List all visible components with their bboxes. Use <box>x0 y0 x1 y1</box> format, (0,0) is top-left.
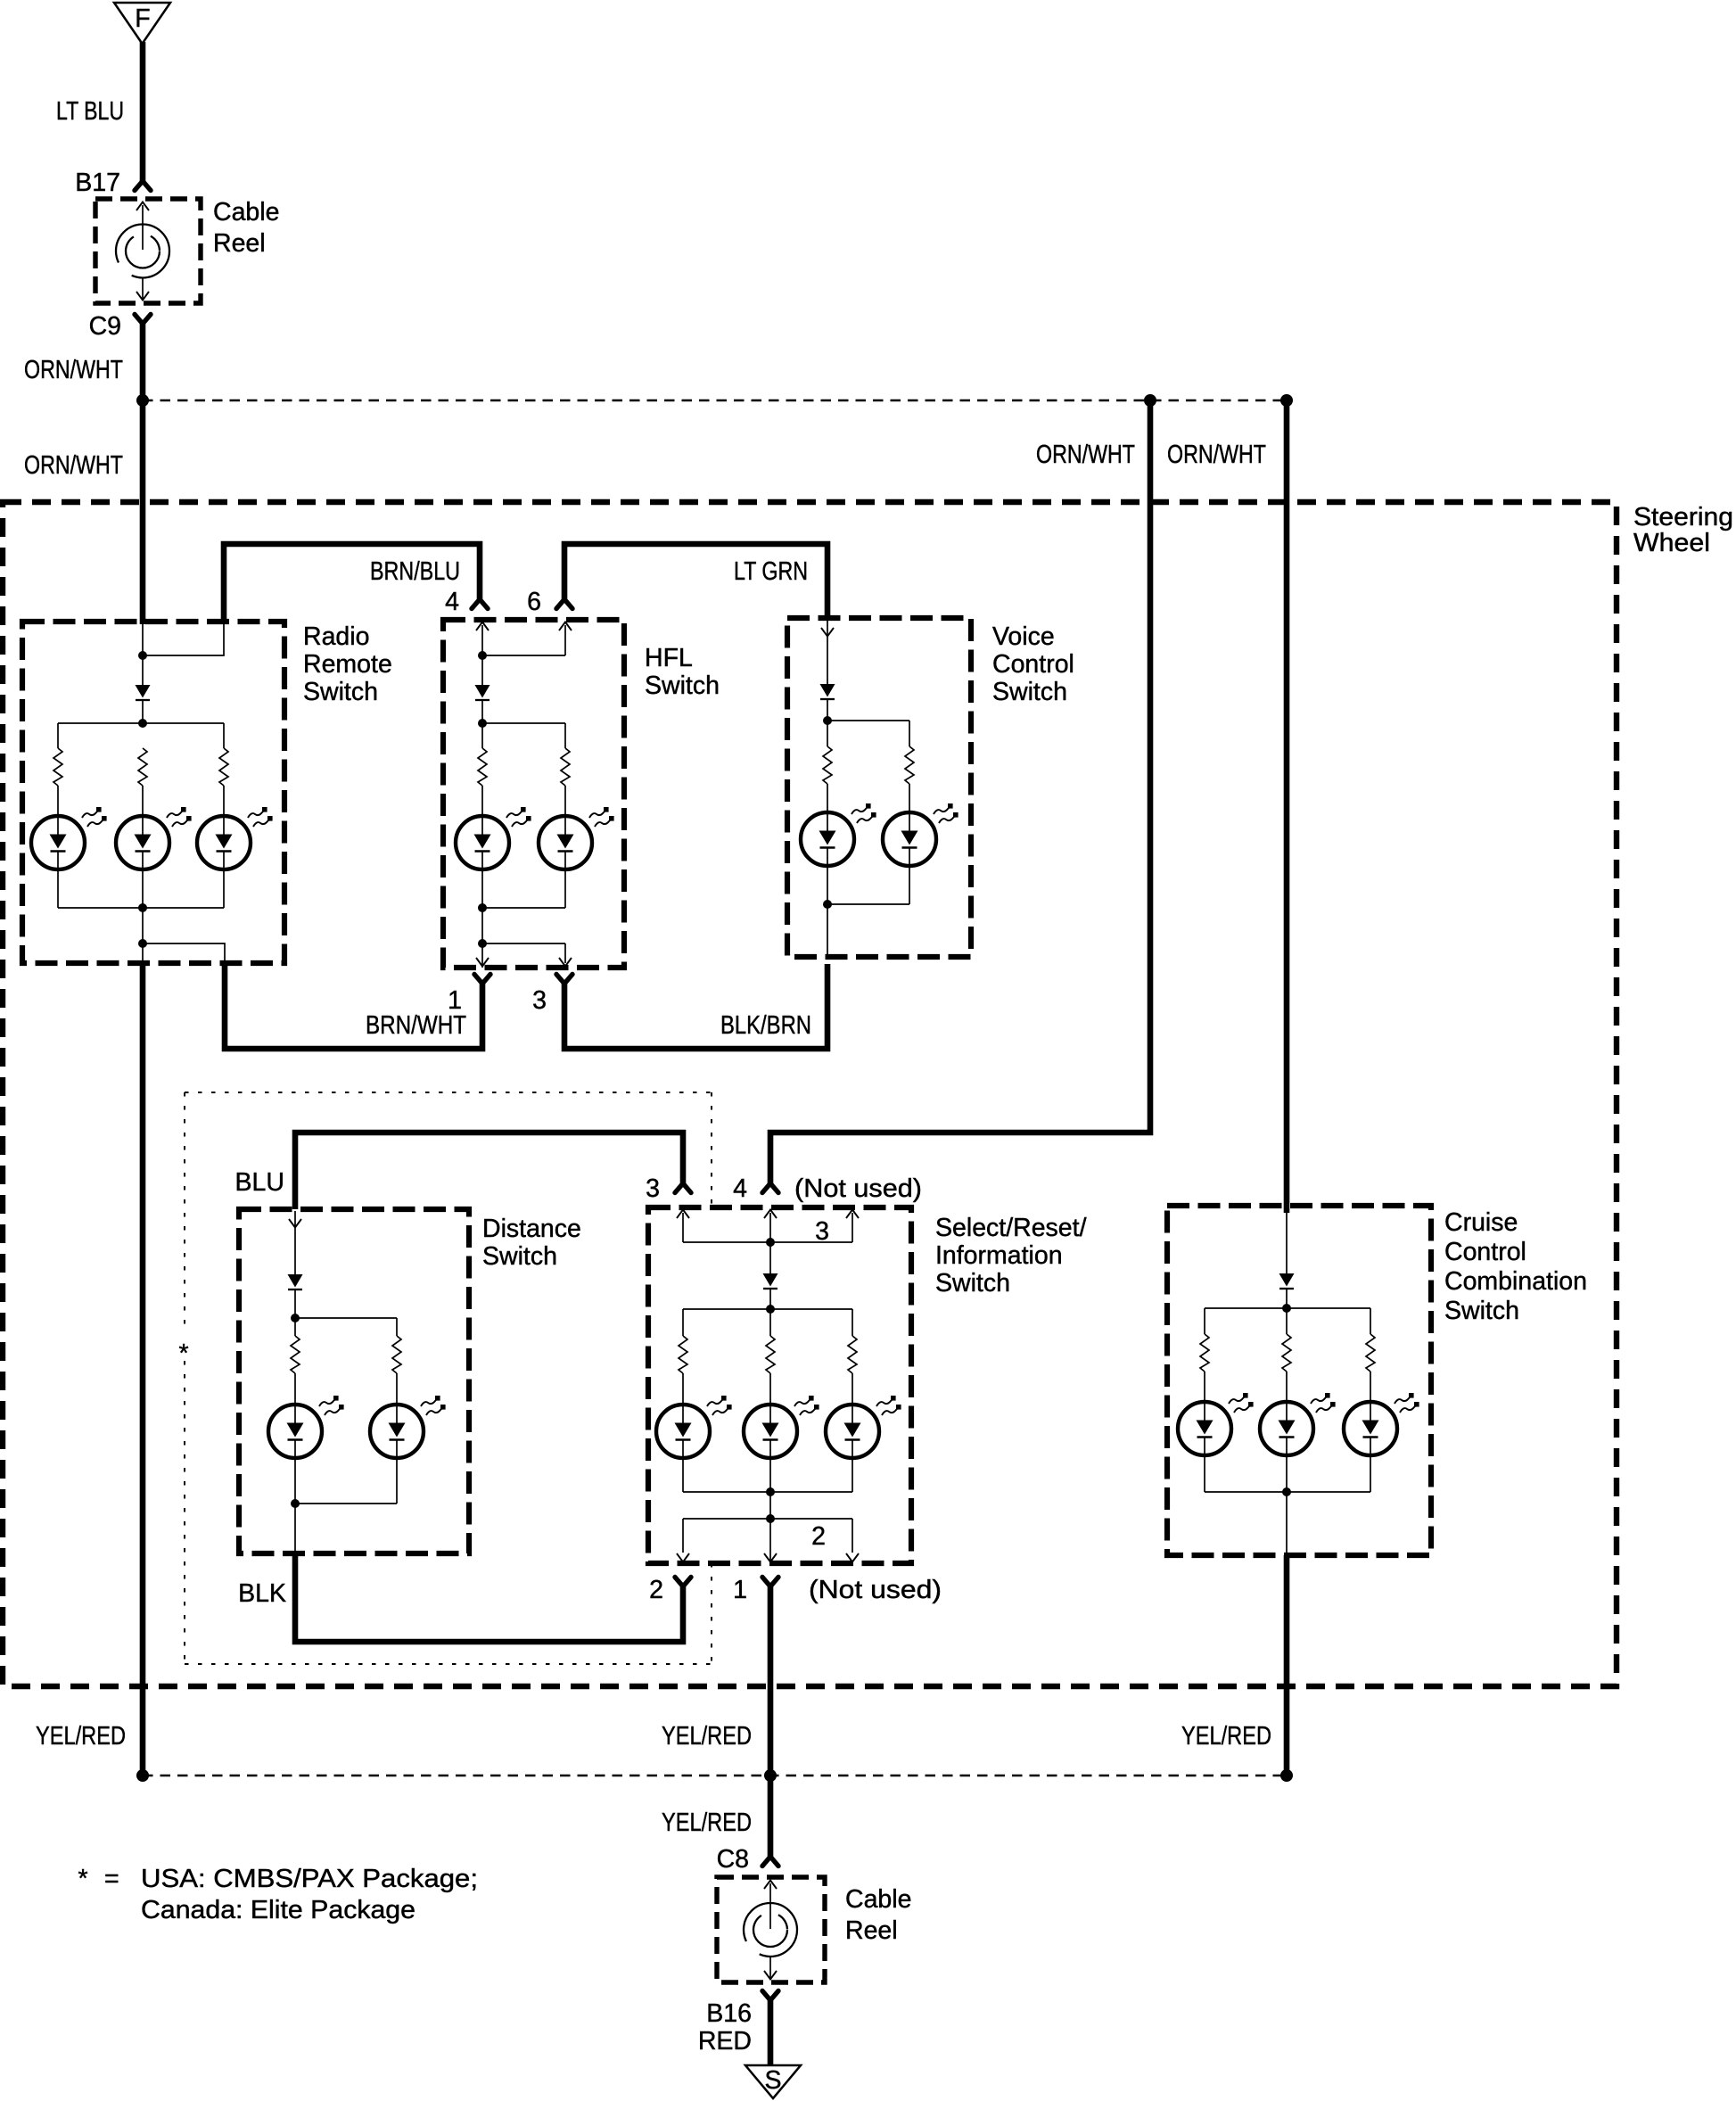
wire (select center line) <box>769 1213 771 1273</box>
Select/Reset/Information Switch box <box>648 1207 911 1563</box>
resistor (radio 2) <box>138 748 147 786</box>
wire (HFL branch 2) <box>564 723 566 748</box>
node B (top bus mid) <box>1144 394 1156 407</box>
wire <box>481 700 483 723</box>
resistor (cruise 1) <box>1200 1334 1209 1372</box>
pin arrow into cable reel <box>136 202 149 251</box>
wire <box>682 1373 684 1405</box>
svg-text:RED: RED <box>698 2027 752 2056</box>
wire YEL/RED (cruise to bottom bus) <box>1284 1555 1290 1779</box>
steering wheel boundary <box>3 502 1617 1686</box>
wire <box>294 1373 296 1405</box>
svg-text:(Not used): (Not used) <box>794 1174 922 1203</box>
wire <box>1204 1372 1205 1402</box>
node <box>138 903 147 912</box>
wire (distance branch 2) <box>396 1318 398 1336</box>
connector S (splice feed) <box>745 2065 801 2098</box>
label Distance Switch <box>482 1215 581 1271</box>
node <box>766 1514 775 1523</box>
svg-text:Combination: Combination <box>1444 1267 1587 1296</box>
wire <box>294 1458 296 1553</box>
wire <box>294 1289 296 1318</box>
svg-text:Switch: Switch <box>992 678 1067 706</box>
node (select rail) <box>766 1305 775 1314</box>
svg-text:USA: CMBS/PAX Package;: USA: CMBS/PAX Package; <box>141 1865 478 1893</box>
wire <box>564 869 566 908</box>
wire (cruise top rail) <box>1205 1307 1370 1309</box>
wire <box>1286 1289 1288 1308</box>
pin arrow (HFL 6) <box>559 622 572 631</box>
connector pin 1 (Select) <box>762 1578 778 1587</box>
wire (radio link to BRN/BLU entry) <box>143 624 224 655</box>
svg-text:Reel: Reel <box>213 229 266 258</box>
svg-text:ORN/WHT: ORN/WHT <box>24 451 123 480</box>
connector B17 <box>135 181 151 191</box>
wire (cruise bottom rail) <box>1205 1491 1370 1493</box>
wire (radio internal feed) <box>142 624 144 685</box>
Radio Remote Switch box <box>22 622 284 963</box>
wire (voice branch 2) <box>909 721 910 746</box>
wire BRN/WHT <box>225 963 482 1049</box>
wire (radio branch 3) <box>223 723 225 748</box>
svg-text:B17: B17 <box>75 169 120 197</box>
wire RED <box>768 2000 774 2067</box>
wire (cruise feed) <box>1286 1211 1288 1273</box>
wire <box>396 1373 398 1405</box>
LED (radio 1) <box>31 807 107 869</box>
svg-text:Control: Control <box>1444 1238 1526 1266</box>
wire <box>564 625 566 655</box>
connector pin 3 (HFL) <box>556 975 572 985</box>
wire (HFL top rail) <box>482 722 565 724</box>
pin arrow (HFL 4) <box>476 622 489 631</box>
wire (radio branch 1) <box>57 723 59 748</box>
wire (cruise branch 1) <box>1204 1308 1205 1334</box>
svg-text:4: 4 <box>445 588 459 616</box>
wire <box>769 1289 771 1309</box>
wire (select branch 3) <box>852 1309 853 1336</box>
label Cable Reel (top) <box>213 198 279 258</box>
svg-text:F: F <box>135 4 150 33</box>
wire (select top link rail) <box>683 1241 852 1243</box>
resistor (select 1) <box>679 1336 687 1373</box>
LED (distance 1) <box>268 1396 344 1458</box>
svg-text:YEL/RED: YEL/RED <box>1181 1722 1271 1751</box>
svg-text:Switch: Switch <box>935 1269 1010 1298</box>
resistor (radio 3) <box>219 748 228 786</box>
cable reel coil (bottom) <box>744 1903 797 1957</box>
node (radio link) <box>138 651 147 660</box>
svg-text:Select/Reset/: Select/Reset/ <box>935 1214 1087 1242</box>
node (HFL link) <box>478 651 487 660</box>
svg-text:2: 2 <box>811 1522 826 1551</box>
wire <box>769 1309 771 1336</box>
cable reel coil <box>116 225 169 278</box>
svg-text:BLK: BLK <box>238 1579 286 1608</box>
wire <box>223 869 225 908</box>
svg-text:Canada: Elite Package: Canada: Elite Package <box>141 1896 415 1924</box>
svg-text:Voice: Voice <box>992 622 1055 651</box>
resistor (HFL 1) <box>478 748 487 786</box>
node (distance rail) <box>291 1314 300 1322</box>
Cruise Control Combination Switch box <box>1167 1206 1431 1555</box>
svg-text:LT BLU: LT BLU <box>56 97 124 126</box>
wire YEL/RED (node E to C8) <box>768 1776 774 1857</box>
LED (cruise 2) <box>1260 1393 1336 1455</box>
wire <box>769 1458 771 1563</box>
pin arrow (HFL 3 exit) <box>559 958 572 967</box>
LED (select 2) <box>744 1396 819 1458</box>
wire (select bottom rail) <box>683 1491 852 1493</box>
wire <box>852 1458 853 1492</box>
wire YEL/RED (select pin 1 down) <box>768 1586 774 1779</box>
label HFL Switch <box>645 644 720 700</box>
diode (HFL) <box>475 685 490 700</box>
svg-text:LT GRN: LT GRN <box>734 557 808 586</box>
pin arrow (select 3) <box>677 1210 689 1243</box>
wire <box>909 866 910 904</box>
wire <box>481 723 483 748</box>
resistor (voice 2) <box>905 746 914 784</box>
svg-text:Radio: Radio <box>303 622 369 651</box>
node <box>766 1487 775 1496</box>
svg-text:(Not used): (Not used) <box>809 1576 942 1604</box>
pin arrow (select internal 2 exit) <box>846 1553 859 1562</box>
svg-text:BRN/WHT: BRN/WHT <box>366 1011 466 1040</box>
node F (bottom bus right) <box>1280 1769 1293 1782</box>
LED (distance 2) <box>370 1396 446 1458</box>
diode (voice) <box>820 684 835 699</box>
svg-text:S: S <box>764 2066 781 2095</box>
node (cruise rail) <box>1282 1304 1291 1313</box>
svg-text:2: 2 <box>649 1576 663 1604</box>
resistor (select 3) <box>848 1336 857 1373</box>
svg-text:*: * <box>178 1339 188 1368</box>
connector B16 <box>762 1991 778 2001</box>
resistor (voice 1) <box>823 746 832 784</box>
LED (voice 1) <box>801 803 876 866</box>
svg-text:BLK/BRN: BLK/BRN <box>720 1011 811 1040</box>
cable reel exit arrow <box>136 278 149 301</box>
LED (HFL 2) <box>539 807 614 869</box>
wire (HFL link rail) <box>482 655 565 656</box>
wire <box>142 700 144 723</box>
wire <box>769 1373 771 1405</box>
svg-text:Cruise: Cruise <box>1444 1208 1518 1237</box>
node E (bottom bus center) <box>764 1769 777 1782</box>
resistor (cruise 3) <box>1366 1334 1375 1372</box>
Voice Control Switch box <box>787 618 971 957</box>
diode (radio) <box>136 685 151 700</box>
LED (cruise 3) <box>1344 1393 1419 1455</box>
svg-text:Switch: Switch <box>303 678 378 706</box>
wire <box>57 869 59 908</box>
node (radio rail) <box>138 719 147 728</box>
wire <box>909 784 910 812</box>
wire <box>294 1318 296 1336</box>
node <box>823 900 832 909</box>
wire (radio top rail) <box>58 722 224 724</box>
wire ORN/WHT (node C to Cruise box) <box>1284 400 1290 1213</box>
bus dashed line (bottom) <box>143 1775 1287 1777</box>
wire <box>1286 1455 1288 1555</box>
svg-text:HFL: HFL <box>645 644 693 672</box>
connector F (fuse feed) <box>114 3 170 44</box>
wire (voice bottom rail) <box>827 903 909 905</box>
wire <box>682 1458 684 1492</box>
resistor (cruise 2) <box>1282 1334 1291 1372</box>
label Cable Reel (bottom) <box>845 1885 911 1945</box>
wire <box>1286 1308 1288 1334</box>
HFL Switch box <box>443 620 624 968</box>
svg-text:YEL/RED: YEL/RED <box>36 1722 126 1751</box>
wire <box>827 866 828 957</box>
wire <box>564 943 566 963</box>
wire <box>852 1373 853 1405</box>
wire <box>481 869 483 968</box>
diode (distance) <box>288 1274 303 1289</box>
svg-text:ORN/WHT: ORN/WHT <box>1036 441 1135 469</box>
cable reel box (bottom) <box>717 1877 825 1982</box>
wire (select branch 1) <box>682 1309 684 1336</box>
wire <box>1286 1372 1288 1402</box>
wire (select bottom link rail) <box>683 1518 852 1520</box>
wire <box>852 1519 853 1553</box>
LED (voice 2) <box>883 803 959 866</box>
label Cruise Control Combination Switch <box>1444 1208 1587 1325</box>
svg-text:Information: Information <box>935 1241 1063 1270</box>
connector pin 3 (Select) <box>675 1183 691 1193</box>
svg-text:Distance: Distance <box>482 1215 581 1243</box>
resistor (distance 1) <box>291 1336 300 1373</box>
resistor (HFL 2) <box>561 748 570 786</box>
wire <box>223 786 225 815</box>
wire <box>827 721 828 746</box>
resistor (select 2) <box>766 1336 775 1373</box>
wire LT BLU <box>140 42 146 181</box>
wire (HFL bottom rail) <box>482 907 565 909</box>
feed arrow (distance) <box>289 1211 301 1274</box>
diode (cruise) <box>1279 1273 1295 1289</box>
svg-text:C9: C9 <box>89 312 121 341</box>
svg-text:Switch: Switch <box>645 671 720 700</box>
resistor (radio 1) <box>53 748 62 786</box>
svg-text:B16: B16 <box>706 1999 752 2028</box>
wire LT GRN <box>564 544 827 621</box>
label Steering Wheel <box>1633 503 1733 557</box>
option dotted boundary (CMBS/PAX) <box>185 1092 712 1664</box>
wire (radio bottom rail) <box>58 907 224 909</box>
wire (cruise branch 3) <box>1370 1308 1371 1334</box>
wire <box>481 786 483 815</box>
wire (radio link to BRN/WHT exit) <box>143 943 225 963</box>
node <box>1282 1487 1291 1496</box>
LED (radio 2) <box>116 807 192 869</box>
wire <box>57 786 59 815</box>
LED (cruise 1) <box>1178 1393 1254 1455</box>
wire <box>564 786 566 815</box>
svg-text:4: 4 <box>733 1174 747 1203</box>
wire BRN/BLU <box>224 544 480 624</box>
wire <box>142 786 144 815</box>
resistor (distance 2) <box>392 1336 401 1373</box>
wire (distance bottom rail) <box>295 1503 397 1504</box>
connector pin 4 (Select) <box>762 1183 778 1193</box>
node <box>291 1499 300 1508</box>
svg-text:ORN/WHT: ORN/WHT <box>24 356 123 384</box>
LED (radio 3) <box>197 807 273 869</box>
wire (distance top rail) <box>295 1317 397 1319</box>
pin arrow (select 2 exit) <box>677 1553 689 1562</box>
svg-text:Steering: Steering <box>1633 503 1733 531</box>
wire <box>142 869 144 963</box>
wire (HFL left line) <box>481 625 483 685</box>
wire <box>827 784 828 812</box>
svg-text:C8: C8 <box>717 1845 749 1874</box>
diode (select) <box>763 1273 778 1289</box>
svg-text:BRN/BLU: BRN/BLU <box>370 557 460 586</box>
node <box>766 1238 775 1247</box>
Distance Switch box <box>239 1209 469 1553</box>
wire <box>1370 1372 1371 1402</box>
footnote <box>78 1865 478 1924</box>
wire (select top rail) <box>683 1308 852 1310</box>
wire BLK/BRN <box>564 964 827 1049</box>
feed arrow (voice) <box>821 621 834 684</box>
node D (bottom bus left) <box>136 1769 149 1782</box>
node <box>138 939 147 948</box>
pin arrow (select 1 exit) <box>764 1553 777 1562</box>
cable reel exit arrow <box>764 1957 777 1980</box>
svg-text:Remote: Remote <box>303 650 392 679</box>
connector pin 4 (HFL) <box>472 599 488 609</box>
wire <box>1204 1455 1205 1492</box>
node C (top bus right) <box>1280 394 1293 407</box>
node (voice rail) <box>823 716 832 725</box>
bus dashed line (top) <box>143 400 1287 402</box>
svg-text:3: 3 <box>646 1174 660 1203</box>
svg-text:BLU: BLU <box>235 1168 284 1197</box>
svg-text:Reel: Reel <box>845 1916 898 1945</box>
connector C9 <box>135 315 151 325</box>
wire BLU <box>295 1133 683 1209</box>
wire YEL/RED (radio to bottom bus) <box>140 963 146 1779</box>
svg-text:*: * <box>78 1865 87 1893</box>
wire <box>827 699 828 721</box>
node <box>478 939 487 948</box>
wire <box>1370 1455 1371 1492</box>
connector pin 1 (HFL) <box>474 975 490 985</box>
pin arrow into cable reel <box>764 1881 777 1930</box>
svg-text:Switch: Switch <box>1444 1297 1519 1325</box>
wire BLK <box>295 1553 683 1642</box>
svg-text:1: 1 <box>733 1576 747 1604</box>
node (HFL rail) <box>478 719 487 728</box>
svg-text:Control: Control <box>992 650 1074 679</box>
LED (HFL 1) <box>456 807 531 869</box>
svg-text:6: 6 <box>527 588 541 616</box>
svg-text:ORN/WHT: ORN/WHT <box>1167 441 1266 469</box>
svg-text:3: 3 <box>532 986 547 1015</box>
pin arrow (select internal 3) <box>846 1210 859 1243</box>
pin arrow (HFL 1 exit) <box>476 958 489 967</box>
svg-text:Wheel: Wheel <box>1633 529 1710 557</box>
wire <box>682 1519 684 1553</box>
svg-text:YEL/RED: YEL/RED <box>662 1722 752 1751</box>
LED (select 3) <box>826 1396 901 1458</box>
connector pin 2 (Select) <box>675 1578 691 1587</box>
wire (voice top rail) <box>827 720 909 721</box>
svg-text:Cable: Cable <box>845 1885 911 1914</box>
label Radio Remote Switch <box>303 622 392 706</box>
label Voice Control Switch <box>992 622 1074 706</box>
pin arrow (select 4) <box>764 1210 777 1219</box>
node A (top bus left) <box>136 394 149 407</box>
node <box>478 903 487 912</box>
label Select/Reset/Information Switch <box>935 1214 1087 1298</box>
svg-text:=: = <box>104 1865 119 1893</box>
wire <box>396 1458 398 1504</box>
connector C8 <box>762 1857 778 1866</box>
svg-text:Switch: Switch <box>482 1242 557 1271</box>
svg-text:Cable: Cable <box>213 198 279 227</box>
wire ORN/WHT (C9 to node) <box>140 324 146 403</box>
cable reel box (top) <box>95 199 201 303</box>
svg-text:YEL/RED: YEL/RED <box>662 1809 752 1837</box>
wire (HFL exit link) <box>482 943 565 944</box>
wire ORN/WHT (node B to Select pin 4) <box>770 400 1150 1183</box>
connector pin 6 (HFL) <box>556 599 572 609</box>
wire ORN/WHT (node to Radio box) <box>140 400 146 624</box>
LED (select 1) <box>656 1396 732 1458</box>
